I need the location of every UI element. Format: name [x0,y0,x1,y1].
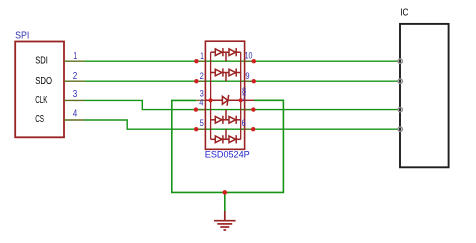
wire net SDI (SPI pin1 to ESD pin1/10 to IC) [85,60,399,62]
IC pin circle row 1 [398,59,402,63]
wire net SDO (SPI pin2 to ESD pin2/9 to IC) [85,80,399,82]
diode pair row 2 (channel 2) [211,68,241,81]
IC pin circle row 2 [398,79,402,83]
diode pair row 5 (channel 5) [211,129,241,143]
svg-text:2: 2 [73,71,78,82]
wire ground stub [224,192,226,212]
svg-text:1: 1 [200,51,204,61]
svg-text:4: 4 [199,97,203,107]
wire net CLK (SPI pin3 jog to ESD pin4/7 to IC) [85,100,399,109]
IC pin circle row 4 [398,127,402,131]
junction dot ESD pin 9 [252,79,256,83]
svg-text:SDO: SDO [35,76,52,87]
ESD array U1 pin 1 lead [196,60,205,62]
wire net CS (SPI pin4 jog to ESD pin5/6 to IC) [85,120,399,129]
junction dot ESD pin 5 [194,127,198,131]
junction dot ESD pin 4 [194,107,198,111]
IC body [400,24,449,167]
SPI pin 1 lead [64,60,85,62]
ESD array U1 pin 7 lead [245,109,254,111]
diode pair row 4 (channel 4) [211,110,241,124]
svg-text:2: 2 [200,71,204,81]
ESD array U1 pin 9 lead [245,80,254,82]
junction dot ESD pin 10 [252,59,256,63]
connector SPI body [15,42,64,138]
svg-text:CS: CS [35,114,44,125]
ESD internal VCC rail (right) [240,52,242,139]
ESD array U1 pin 5 lead [196,128,205,130]
ESD array U1 pin 8 lead [245,99,254,101]
junction dot ground rail [223,190,228,195]
junction dot ESD pin 1 [194,59,198,63]
SPI pin 2 lead [64,80,85,82]
svg-text:9: 9 [245,71,249,81]
wire GND net left (ESD pin3 down to ground rail) [172,100,284,192]
svg-text:ESD0524P: ESD0524P [205,149,250,160]
SPI pin 4 lead [64,119,85,121]
svg-text:10: 10 [245,51,253,62]
clamp diode middle row (pins 3-8) [205,95,244,106]
svg-text:IC: IC [400,8,408,19]
ESD array U1 pin 6 lead [245,128,254,130]
svg-text:5: 5 [200,118,204,128]
svg-text:3: 3 [73,89,78,100]
ESD internal GND rail (left) [210,52,212,139]
junction dot internal GND rail [209,98,213,102]
junction dot ESD pin 7 [251,107,255,111]
junction dot internal VCC rail [239,98,243,102]
junction dot ESD pin 6 [251,127,255,131]
IC pin circle row 3 [398,107,402,111]
diode pair row 1 (channel 1) [211,48,241,61]
ESD array U1 pin 2 lead [196,80,205,82]
SPI pin 3 lead [64,99,85,101]
svg-text:7: 7 [242,93,246,103]
svg-text:6: 6 [242,118,246,128]
ground symbol [214,211,236,230]
ESD array U1 pin 10 lead [245,60,254,62]
svg-text:CLK: CLK [35,95,47,106]
svg-text:SDI: SDI [35,56,48,67]
junction dot ESD pin 2 [194,79,198,83]
ESD array U1 body ESD0524P [205,41,244,149]
ESD array U1 pin 3 lead [196,99,205,101]
svg-text:1: 1 [73,51,77,62]
ESD array U1 pin 4 lead [196,109,206,111]
svg-text:SPI: SPI [15,31,29,42]
svg-text:4: 4 [73,108,78,119]
